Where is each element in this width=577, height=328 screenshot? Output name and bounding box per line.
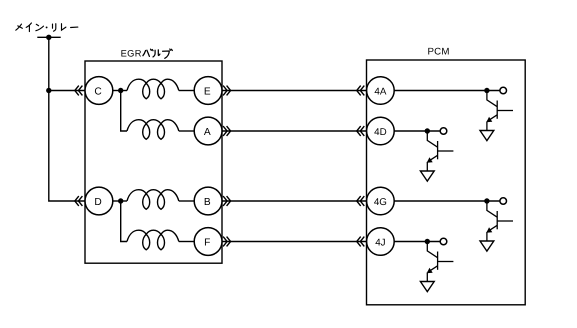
connector chevrons at pin 4G xyxy=(357,196,365,206)
pin D xyxy=(85,187,113,215)
connector chevrons at pin 4A xyxy=(357,86,365,96)
transistor Q2 xyxy=(427,133,453,171)
wire: drop to coil 4 xyxy=(121,201,127,242)
svg-text:4D: 4D xyxy=(374,127,387,138)
coil 3 xyxy=(127,190,179,210)
pin 4J xyxy=(367,228,395,256)
pin 4A xyxy=(367,77,395,105)
node: Q3 collector junction xyxy=(484,198,489,203)
connector chevrons at pin C xyxy=(75,86,83,96)
connector chevrons after pin E xyxy=(223,86,231,96)
wire: E to 4A xyxy=(222,90,367,92)
wire: 4J to driver Q4 xyxy=(394,241,440,243)
wire: B to 4G xyxy=(222,200,367,202)
svg-text:4G: 4G xyxy=(374,197,387,208)
node: junction after pin C xyxy=(118,88,123,93)
svg-text:C: C xyxy=(94,86,101,97)
ground Q1 xyxy=(480,131,494,141)
connector chevrons after pin A xyxy=(223,126,231,136)
svg-text:4A: 4A xyxy=(374,86,386,97)
svg-text:F: F xyxy=(204,237,210,248)
wire: supply rail from relay down to row D xyxy=(49,37,85,201)
label main relay (メイン・リレー) xyxy=(16,23,78,32)
coil 1 (EGR solenoid winding) xyxy=(127,79,179,99)
transistor Q1 xyxy=(487,93,513,131)
wire: coil 4 to pin F xyxy=(179,241,194,243)
terminal open circle row 1 xyxy=(500,87,507,94)
pin 4G xyxy=(367,187,395,215)
wire: A to 4D xyxy=(222,130,367,132)
connector chevrons at pin 4D xyxy=(357,126,365,136)
terminal open circle row 3 xyxy=(500,198,507,205)
svg-text:D: D xyxy=(94,197,101,208)
pin C xyxy=(85,77,113,105)
coil 4 xyxy=(127,230,179,250)
wire: coil 1 to pin E xyxy=(179,90,194,92)
ground Q4 xyxy=(420,282,434,292)
connector chevrons after pin B xyxy=(223,196,231,206)
ground Q3 xyxy=(480,241,494,251)
transistor Q3 xyxy=(487,203,513,241)
wire: 4G to driver Q3 xyxy=(394,200,499,202)
svg-text:E: E xyxy=(204,86,211,97)
wire: coil 3 to pin B xyxy=(179,200,194,202)
svg-text:4J: 4J xyxy=(375,237,385,248)
node: junction after pin D xyxy=(118,198,123,203)
svg-text:EGR: EGR xyxy=(121,48,142,58)
svg-text:A: A xyxy=(204,127,211,138)
EGR valve box xyxy=(85,61,222,263)
node: Q4 collector junction xyxy=(425,239,430,244)
terminal open circle row 2 xyxy=(440,128,447,135)
pin A xyxy=(194,117,222,145)
connector chevrons at pin D xyxy=(75,196,83,206)
connector chevrons at pin 4J xyxy=(357,237,365,247)
pin 4D xyxy=(367,117,395,145)
PCM box xyxy=(367,60,526,305)
terminal open circle row 4 xyxy=(440,238,447,245)
connector chevrons after pin F xyxy=(223,237,231,247)
node: Q1 collector junction xyxy=(484,88,489,93)
wire: drop to coil 2 xyxy=(121,91,127,132)
coil 2 xyxy=(127,120,179,140)
wire: pin D to coil 3 xyxy=(113,200,127,202)
node: rail junction xyxy=(46,88,51,93)
svg-text:PCM: PCM xyxy=(428,46,450,57)
wire: coil 2 to pin A xyxy=(179,130,194,132)
junction dot on terminal bar xyxy=(46,35,51,40)
transistor Q4 xyxy=(427,244,453,282)
node: Q2 collector junction xyxy=(425,128,430,133)
wire: F to 4J xyxy=(222,241,367,243)
pin E xyxy=(194,77,222,105)
wire: 4D to driver Q2 xyxy=(394,130,440,132)
pin B xyxy=(194,187,222,215)
wire: branch to pin C xyxy=(49,90,85,92)
main relay terminal bar xyxy=(37,36,60,38)
pin F xyxy=(194,228,222,256)
ground Q2 xyxy=(420,171,434,181)
wire: 4A to driver Q1 xyxy=(394,90,499,92)
wire: pin C to coil 1 xyxy=(113,90,127,92)
svg-text:B: B xyxy=(204,197,211,208)
